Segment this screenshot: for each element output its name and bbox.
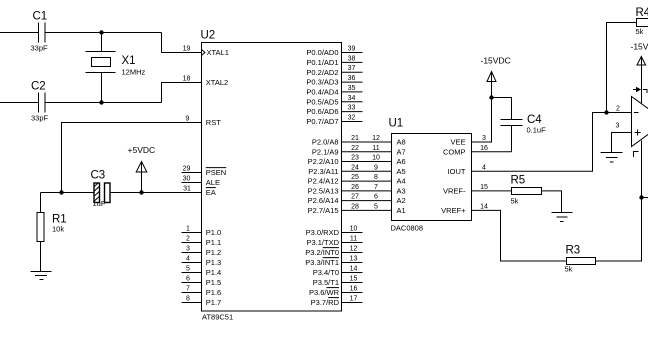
wire VREF+ to R3 [472, 210, 567, 261]
value 0.1uF [527, 126, 547, 135]
svg-text:24: 24 [351, 164, 359, 171]
op-amp V- power pin [641, 141, 643, 198]
part name DAC0808 [391, 224, 424, 233]
wire VEE to -15VDC [472, 82, 492, 143]
svg-text:31: 31 [183, 186, 191, 193]
resistor R1 [37, 193, 44, 272]
svg-text:P2.5/A13: P2.5/A13 [308, 187, 339, 196]
svg-text:11: 11 [350, 236, 357, 243]
svg-text:U1: U1 [389, 118, 404, 130]
label +5VDC [128, 145, 156, 155]
svg-text:P1.1: P1.1 [206, 238, 221, 247]
label R5 [511, 175, 526, 187]
wire R5 to ground [542, 191, 562, 213]
svg-text:A3: A3 [397, 187, 406, 196]
svg-text:A1: A1 [397, 206, 406, 215]
svg-text:12: 12 [350, 246, 358, 253]
pin number 7 (op-amp bottom) [634, 152, 639, 158]
svg-text:RST: RST [206, 118, 221, 127]
wire feedback to R4 [607, 23, 637, 113]
svg-text:P3.3/INT1: P3.3/INT1 [305, 258, 339, 267]
svg-text:P2.7/A15: P2.7/A15 [308, 206, 339, 215]
node junction VEE/C4 [489, 95, 493, 99]
capacitor C2 [0, 93, 162, 113]
ground (R5) [552, 213, 573, 222]
svg-text:9: 9 [374, 164, 378, 171]
svg-text:PSEN: PSEN [206, 168, 226, 177]
svg-text:A6: A6 [397, 157, 406, 166]
pin stub PSEN 29 [182, 172, 202, 174]
label -15VDC [481, 56, 511, 66]
pin numbers 1-8 [186, 226, 190, 303]
pin number 15 (VREF-) [480, 184, 488, 191]
wire XTAL2 net [162, 83, 202, 103]
svg-text:28: 28 [351, 203, 359, 210]
svg-text:P0.1/AD1: P0.1/AD1 [306, 58, 338, 67]
svg-text:25: 25 [351, 174, 359, 181]
pin names P0.0/AD0-P0.7/AD7 [306, 48, 338, 126]
svg-text:P0.4/AD4: P0.4/AD4 [306, 88, 338, 97]
label U2 [201, 30, 216, 42]
pin XTAL2 name [206, 78, 228, 87]
svg-text:5k: 5k [636, 27, 644, 36]
svg-text:19: 19 [183, 46, 191, 53]
svg-text:18: 18 [183, 76, 191, 83]
svg-text:XTAL2: XTAL2 [206, 78, 228, 87]
label R3 [566, 245, 581, 257]
svg-text:P1.5: P1.5 [206, 278, 221, 287]
svg-text:7: 7 [186, 286, 190, 293]
svg-text:6: 6 [374, 194, 378, 201]
svg-text:P3.7/RD: P3.7/RD [311, 298, 340, 307]
svg-text:P2.2/A10: P2.2/A10 [308, 157, 339, 166]
svg-text:P2.3/A11: P2.3/A11 [308, 167, 338, 176]
svg-text:P2.4/A12: P2.4/A12 [308, 177, 339, 186]
wire op-amp pin3 to ground [612, 133, 632, 153]
power +5VDC terminal [136, 162, 147, 193]
overline WR [327, 287, 340, 289]
pin number 29 [183, 166, 191, 173]
svg-text:IOUT: IOUT [448, 167, 466, 176]
label C3 [91, 170, 106, 182]
svg-text:R4: R4 [636, 7, 648, 19]
DAC U1 body [392, 134, 472, 221]
svg-text:P0.0/AD0: P0.0/AD0 [306, 48, 338, 57]
svg-text:5k: 5k [511, 197, 519, 206]
svg-text:P1.4: P1.4 [206, 268, 221, 277]
svg-text:8: 8 [374, 174, 378, 181]
pin number 2 [616, 105, 620, 112]
svg-text:7: 7 [374, 184, 378, 191]
op-amp V+ power pin [641, 65, 643, 103]
pin number 14 (VREF+) [480, 203, 488, 210]
svg-text:AT89C51: AT89C51 [202, 313, 233, 322]
pin names P1.0-P1.7 [206, 228, 221, 307]
pin ALE name [206, 178, 220, 187]
svg-text:P0.3/AD3: P0.3/AD3 [306, 78, 338, 87]
svg-text:10k: 10k [52, 225, 64, 234]
svg-text:33pF: 33pF [31, 44, 49, 53]
svg-text:-15VDC: -15VDC [481, 56, 511, 66]
svg-text:R3: R3 [566, 245, 581, 257]
svg-text:A2: A2 [397, 196, 406, 205]
svg-text:14: 14 [350, 266, 358, 273]
svg-text:X1: X1 [122, 55, 136, 67]
svg-text:10: 10 [350, 226, 358, 233]
svg-text:U2: U2 [201, 30, 216, 42]
svg-text:R5: R5 [511, 175, 526, 187]
pin number 4 (IOUT) [482, 164, 486, 171]
svg-text:36: 36 [348, 75, 356, 82]
pin number 18 [183, 76, 191, 83]
overline RD [328, 297, 339, 299]
svg-text:P0.5/AD5: P0.5/AD5 [306, 97, 338, 106]
pin number 31 [183, 186, 191, 193]
pin numbers 12-5 (DAC inputs) [372, 135, 380, 210]
svg-text:XTAL1: XTAL1 [207, 48, 229, 57]
svg-text:29: 29 [183, 166, 191, 173]
op-amp minus input mark [634, 112, 639, 114]
svg-text:P0.7/AD7: P0.7/AD7 [306, 117, 338, 126]
svg-text:39: 39 [348, 46, 356, 53]
svg-text:15: 15 [480, 184, 488, 191]
svg-text:13: 13 [350, 256, 358, 263]
svg-text:P3.5/T1: P3.5/T1 [313, 278, 339, 287]
resistor R4 (clipped) [637, 19, 648, 27]
pin number 3 [615, 123, 619, 130]
label -15VDC (clipped) [631, 42, 648, 52]
svg-text:3: 3 [482, 135, 486, 142]
svg-text:9: 9 [186, 116, 190, 123]
label X1 [122, 55, 136, 67]
wire EA / reset RC net [41, 192, 202, 194]
pin numbers 39-32 [348, 46, 356, 122]
pin number 19 [183, 46, 191, 53]
svg-text:C3: C3 [91, 170, 106, 182]
capacitor C3 (polarized) [94, 183, 110, 203]
svg-text:P1.0: P1.0 [206, 228, 221, 237]
capacitor C1 [0, 23, 162, 43]
svg-text:33: 33 [348, 105, 356, 112]
crystal X1 [86, 33, 116, 103]
pin number 3 (VEE) [482, 135, 486, 142]
svg-text:C1: C1 [33, 11, 48, 23]
pin names VEE COMP IOUT VREF- VREF+ [441, 138, 466, 215]
label U1 [389, 118, 404, 130]
value 33pF (C1) [31, 44, 49, 53]
svg-text:VREF-: VREF- [443, 187, 466, 196]
svg-text:P2.0/A8: P2.0/A8 [312, 138, 339, 147]
pin number 30 [183, 176, 191, 183]
svg-text:P3.2/INT0: P3.2/INT0 [305, 248, 339, 257]
svg-text:32: 32 [348, 115, 356, 122]
microcontroller U2 body [202, 43, 342, 312]
svg-text:4: 4 [482, 164, 486, 171]
svg-text:A8: A8 [397, 138, 406, 147]
svg-text:+5VDC: +5VDC [128, 145, 156, 155]
svg-text:12MHz: 12MHz [122, 68, 146, 77]
svg-text:ALE: ALE [206, 178, 220, 187]
pin names P3.0/RXD-P3.7/RD with overlines [305, 228, 339, 307]
svg-text:16: 16 [480, 145, 488, 152]
svg-text:A4: A4 [397, 177, 406, 186]
svg-text:P3.6/WR: P3.6/WR [309, 288, 340, 297]
node junction +5VDC/EA [139, 190, 143, 194]
clock marker XTAL1 [202, 50, 205, 55]
value 10k [52, 225, 64, 234]
pin numbers 21-28 [351, 135, 359, 210]
svg-text:17: 17 [350, 296, 358, 303]
label R4 [636, 7, 648, 19]
wire IOUT to op-amp [472, 113, 632, 172]
svg-text:-15VDC: -15VDC [631, 42, 648, 52]
svg-text:3: 3 [615, 123, 619, 130]
power -15V terminal (op-amp) [637, 57, 646, 66]
pin names A8-A1 [397, 138, 406, 215]
svg-text:16: 16 [350, 286, 358, 293]
svg-text:A7: A7 [397, 147, 406, 156]
svg-text:P0.2/AD2: P0.2/AD2 [306, 68, 338, 77]
svg-text:23: 23 [351, 155, 359, 162]
svg-text:P3.1/TXD: P3.1/TXD [306, 238, 339, 247]
svg-text:10: 10 [372, 155, 380, 162]
pins P1.0-P1.7 stubs [182, 233, 202, 303]
svg-text:3: 3 [186, 246, 190, 253]
wires P2 bus to DAC [342, 142, 392, 210]
wire RST net [62, 123, 202, 193]
wire VEE node to C4 [492, 98, 512, 120]
wire VREF- to R5 [472, 190, 512, 192]
svg-text:8: 8 [186, 296, 190, 303]
op-amp plus input mark [635, 130, 641, 136]
svg-text:P1.7: P1.7 [206, 298, 221, 307]
node junction feedback [604, 110, 608, 114]
svg-text:12: 12 [372, 135, 380, 142]
svg-text:26: 26 [351, 184, 359, 191]
pin RST name [206, 118, 221, 127]
svg-text:33pF: 33pF [31, 114, 49, 123]
pin names P2.0/A8-P2.7/A15 [308, 138, 339, 215]
wire XTAL1 net [162, 33, 202, 53]
node junction RST/R1 [59, 190, 63, 194]
resistor R5 [512, 188, 542, 195]
svg-text:P2.1/A9: P2.1/A9 [312, 147, 339, 156]
svg-text:27: 27 [351, 194, 359, 201]
value 5k (R3) [565, 265, 573, 274]
svg-text:C4: C4 [527, 114, 542, 126]
svg-text:5: 5 [186, 266, 190, 273]
svg-text:VEE: VEE [450, 138, 465, 147]
overline INT0 [323, 247, 339, 249]
ground (R1) [31, 272, 52, 280]
svg-text:P2.6/A14: P2.6/A14 [308, 196, 339, 205]
label C1 [33, 11, 48, 23]
label R1 [52, 214, 67, 226]
pins P0.0-P0.7 stubs [342, 53, 363, 122]
value 12MHz [122, 68, 146, 77]
pins P3.0-P3.7 stubs [342, 233, 363, 303]
pin XTAL1 name [207, 48, 229, 57]
svg-text:P3.4/T0: P3.4/T0 [313, 268, 339, 277]
power -15VDC terminal [487, 72, 496, 82]
node junction output [639, 195, 643, 199]
svg-text:1uF: 1uF [93, 199, 106, 208]
pin PSEN name (overline) [206, 168, 226, 178]
pin number 9 [186, 116, 190, 123]
svg-text:38: 38 [348, 55, 356, 62]
svg-text:34: 34 [348, 95, 356, 102]
node junction C2/X1 [99, 100, 103, 104]
value 1uF [93, 199, 106, 208]
svg-text:P3.0/RXD: P3.0/RXD [306, 228, 340, 237]
part name AT89C51 [202, 313, 233, 322]
svg-text:21: 21 [351, 135, 359, 142]
value 33pF (C2) [31, 114, 49, 123]
label C2 [31, 81, 46, 93]
svg-text:2: 2 [616, 105, 620, 112]
value 5k (R5) [511, 197, 519, 206]
svg-text:35: 35 [348, 85, 356, 92]
svg-text:EA: EA [206, 188, 216, 197]
svg-text:P1.2: P1.2 [206, 248, 221, 257]
pin mark 4 (op-amp top) [633, 88, 648, 93]
svg-text:0.1uF: 0.1uF [527, 126, 547, 135]
svg-text:COMP: COMP [443, 147, 466, 156]
svg-text:P1.3: P1.3 [206, 258, 221, 267]
svg-text:C2: C2 [31, 81, 46, 93]
capacitor C4 [501, 120, 523, 152]
svg-text:DAC0808: DAC0808 [391, 224, 424, 233]
pin EA name (overline) [206, 188, 216, 198]
svg-text:4: 4 [186, 256, 190, 263]
svg-text:14: 14 [480, 203, 488, 210]
svg-text:11: 11 [372, 145, 379, 152]
pin number 16 (COMP) [480, 145, 488, 152]
svg-text:6: 6 [186, 276, 190, 283]
label C4 [527, 114, 542, 126]
ground (op-amp pin 3) [601, 153, 623, 163]
value 5k (R4) [636, 27, 644, 36]
wire R3 to output node [596, 198, 642, 262]
svg-text:VREF+: VREF+ [441, 206, 466, 215]
svg-text:1: 1 [186, 226, 190, 233]
svg-text:P1.6: P1.6 [206, 288, 221, 297]
svg-text:30: 30 [183, 176, 191, 183]
overline INT1 [323, 257, 339, 259]
svg-text:37: 37 [348, 65, 356, 72]
svg-text:15: 15 [350, 276, 358, 283]
wire output node to edge [642, 197, 648, 199]
node junction C1/X1 [99, 30, 103, 34]
svg-text:A5: A5 [397, 167, 406, 176]
svg-text:2: 2 [186, 236, 190, 243]
svg-text:5: 5 [374, 203, 378, 210]
resistor R3 [567, 258, 596, 265]
pin stub ALE 30 [182, 182, 202, 184]
wire COMP to C4 [472, 151, 512, 153]
op-amp (clipped at right edge) [632, 97, 648, 147]
pin numbers 10-17 [350, 226, 358, 303]
svg-text:P0.6/AD6: P0.6/AD6 [306, 107, 338, 116]
svg-text:22: 22 [351, 145, 359, 152]
svg-text:5k: 5k [565, 265, 573, 274]
